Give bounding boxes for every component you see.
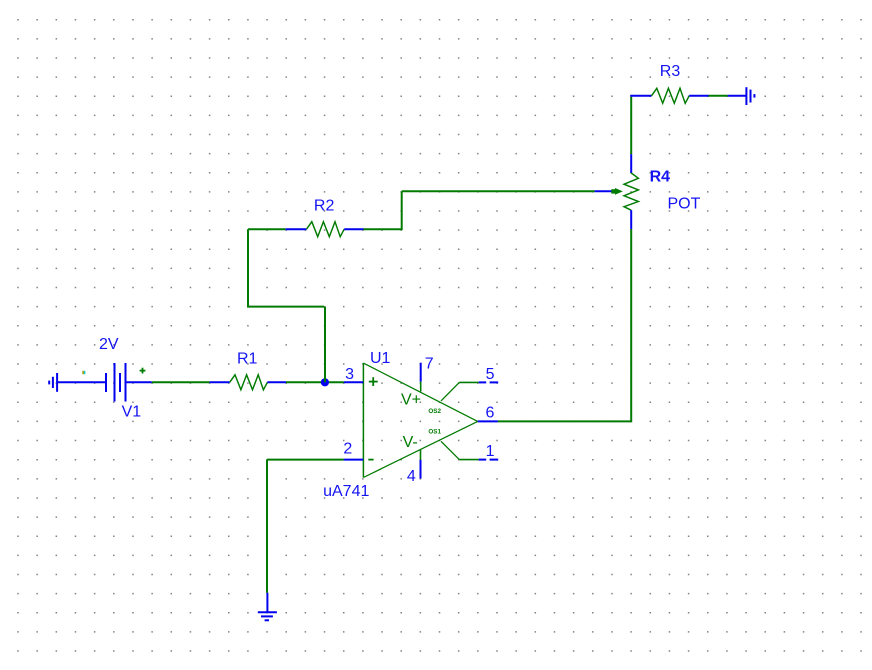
svg-text:OS2: OS2 [428,408,441,415]
svg-text:5: 5 [486,366,495,383]
svg-text:uA741: uA741 [323,483,369,500]
svg-text:POT: POT [668,196,701,213]
svg-text:2V: 2V [99,336,119,353]
svg-text:R2: R2 [314,197,335,214]
svg-text:V-: V- [403,434,418,451]
svg-text:2: 2 [343,441,352,458]
svg-text:3: 3 [345,366,354,383]
svg-text:1: 1 [486,443,495,460]
svg-text:OS1: OS1 [428,428,441,435]
svg-text:V1: V1 [122,403,142,420]
svg-text:R4: R4 [650,168,671,185]
svg-text:V+: V+ [401,391,421,408]
svg-text:R3: R3 [660,63,681,80]
svg-text:4: 4 [407,468,416,485]
svg-text:R1: R1 [237,350,258,367]
svg-text:U1: U1 [370,350,391,367]
svg-text:6: 6 [486,404,495,421]
svg-text:7: 7 [425,356,434,373]
